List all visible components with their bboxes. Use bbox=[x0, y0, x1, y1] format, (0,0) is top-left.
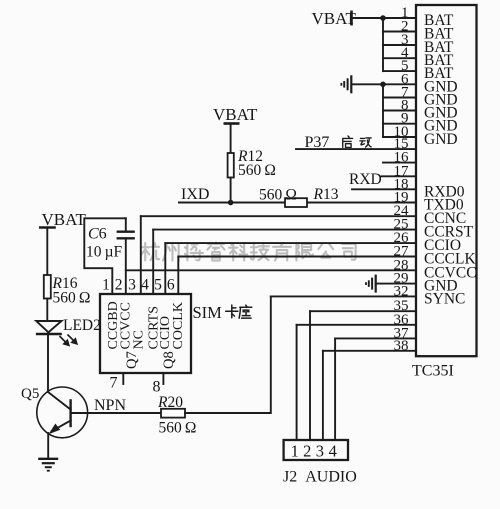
svg-text:3: 3 bbox=[316, 442, 324, 461]
U1 pin 29 (GND) stub and labels bbox=[376, 271, 458, 295]
watermark text 杭州将睿科技有限公司 bbox=[141, 243, 356, 261]
U1 pin 6 (GND) stub and labels bbox=[383, 71, 458, 95]
svg-text:560 Ω: 560 Ω bbox=[259, 187, 297, 204]
power VBAT terminal (LED branch) bbox=[39, 210, 87, 229]
U1 pin 28 (CCVCC) stub and labels bbox=[126, 257, 477, 281]
label SIM card holder bbox=[193, 303, 252, 322]
U1 pin 27 (CCCLK) stub and labels bbox=[178, 244, 476, 268]
svg-text:NPN: NPN bbox=[94, 397, 126, 414]
svg-text:RXD: RXD bbox=[349, 171, 382, 188]
ground symbol (U1 pin 29) bbox=[366, 275, 376, 293]
svg-text:1: 1 bbox=[102, 277, 110, 294]
wire Q5 emitter to ground bbox=[47, 433, 49, 459]
svg-text:4: 4 bbox=[329, 442, 337, 461]
wire SIM pin3 riser to U1 pin24 bbox=[140, 216, 142, 294]
svg-text:SIM: SIM bbox=[193, 303, 223, 322]
ground symbol (pin 6 GND bus) bbox=[341, 75, 383, 93]
wire R12 to TXD line bbox=[230, 178, 232, 203]
wire bus GND pins 6-10 bbox=[382, 84, 384, 137]
U1 pin 35 stub and labels bbox=[310, 298, 416, 314]
SIM pin 8 stub bbox=[153, 373, 164, 396]
junction dot pin6 bus bbox=[380, 82, 386, 88]
svg-text:8: 8 bbox=[153, 379, 161, 396]
svg-text:6: 6 bbox=[167, 277, 175, 294]
wire C6 bottom to SIM pin2 / U1 pin28 riser bbox=[125, 238, 127, 294]
U1 pin 7 (GND) stub and labels bbox=[383, 85, 458, 109]
svg-text:5: 5 bbox=[154, 277, 162, 294]
capacitor C6 bbox=[117, 218, 135, 238]
LED2 emission arrows bbox=[60, 335, 77, 346]
svg-text:C6: C6 bbox=[88, 226, 107, 243]
svg-text:LED2: LED2 bbox=[63, 317, 101, 334]
svg-text:4: 4 bbox=[141, 277, 149, 294]
junction dot pin1 bus bbox=[380, 15, 386, 21]
connector SIM card holder body bbox=[100, 294, 191, 373]
U1 pin 15 stub and labels bbox=[296, 136, 416, 152]
wire R16 to LED2 bbox=[46, 299, 48, 322]
U1 pin 37 stub and labels bbox=[335, 325, 416, 341]
U1 pin 24 (CCNC) stub and labels bbox=[141, 203, 466, 227]
J2 pin numbers 1-4 bbox=[291, 442, 337, 461]
SIM pin 7 stub bbox=[110, 373, 124, 392]
IC U1 TC35I body bbox=[416, 5, 477, 356]
U1 pin 32 (SYNC) stub and labels bbox=[271, 283, 466, 307]
ground symbol below Q5 bbox=[38, 459, 58, 471]
wire J2 pin2 to U1 pin35 bbox=[309, 311, 311, 440]
wire SIM pin5 riser to U1 pin26 bbox=[164, 243, 166, 294]
connector J2 body bbox=[284, 440, 348, 460]
U1 pin 9 (GND) stub and labels bbox=[383, 111, 458, 135]
wire C6 top / SIM pin1 loop bbox=[84, 218, 126, 294]
svg-text:TC35I: TC35I bbox=[412, 362, 454, 379]
SIM pin numbers 1-6 bbox=[102, 277, 175, 294]
svg-text:7: 7 bbox=[110, 375, 118, 392]
svg-text:VBAT: VBAT bbox=[312, 9, 357, 28]
power VBAT terminal (R12 branch) bbox=[213, 105, 258, 124]
svg-text:560 Ω: 560 Ω bbox=[238, 162, 276, 179]
U1 pin 10 (GND) stub and labels bbox=[383, 124, 458, 148]
wire bus BAT pins 1-5 bbox=[382, 18, 384, 71]
U1 pin 16 stub and labels bbox=[383, 150, 416, 166]
wire J2 pin3 to U1 pin38 bbox=[322, 351, 324, 440]
svg-text:GND: GND bbox=[424, 131, 458, 148]
svg-text:SYNC: SYNC bbox=[424, 290, 465, 307]
svg-text:NC: NC bbox=[132, 330, 147, 349]
wire LED2 to Q5 collector bbox=[47, 334, 49, 392]
svg-text:IXD: IXD bbox=[181, 186, 209, 203]
svg-text:VBAT: VBAT bbox=[213, 105, 258, 124]
LED LED2 diode symbol bbox=[36, 321, 62, 334]
wire SIM pin6 riser to U1 pin27 bbox=[177, 257, 179, 295]
resistor R12 body bbox=[228, 153, 234, 178]
wire VBAT to R16 bbox=[46, 228, 48, 277]
U1 pin 19 (TXD0) stub and labels bbox=[179, 190, 464, 214]
resistor R16 body bbox=[44, 275, 51, 299]
resistor R13 body bbox=[285, 198, 307, 207]
U1 pin 4 (BAT) stub and labels bbox=[383, 45, 454, 69]
wire R20 to U1 pin32 bbox=[185, 296, 271, 413]
U1 pin 8 (GND) stub and labels bbox=[383, 98, 458, 122]
net label P37 (start) bbox=[305, 134, 372, 151]
svg-text:38: 38 bbox=[394, 338, 409, 354]
power VBAT terminal (to U1 pin1) bbox=[312, 9, 357, 28]
U1 pin 2 (BAT) stub and labels bbox=[383, 19, 454, 43]
svg-text:10 µF: 10 µF bbox=[86, 244, 123, 261]
wire SIM pin4 riser to U1 pin25 bbox=[152, 230, 154, 294]
U1 pin 3 (BAT) stub and labels bbox=[383, 32, 454, 56]
svg-text:3: 3 bbox=[128, 277, 136, 294]
svg-text:VBAT: VBAT bbox=[42, 210, 87, 229]
svg-text:P37: P37 bbox=[305, 134, 330, 151]
wire J2 pin1 to U1 pin36 bbox=[296, 325, 298, 440]
U1 pin 5 (BAT) stub and labels bbox=[383, 58, 454, 82]
svg-text:J2 AUDIO: J2 AUDIO bbox=[283, 469, 357, 486]
U1 pin 25 (CCRST) stub and labels bbox=[153, 217, 473, 241]
wire VBAT to R12 bbox=[230, 124, 232, 155]
U1 pin 38 stub and labels bbox=[323, 338, 416, 354]
svg-text:COCLK: COCLK bbox=[171, 302, 186, 349]
svg-text:560 Ω: 560 Ω bbox=[159, 420, 197, 437]
transistor Q5 (NPN) bbox=[37, 387, 88, 438]
svg-text:Q7: Q7 bbox=[124, 351, 140, 369]
svg-text:2: 2 bbox=[303, 442, 311, 461]
U1 pin 17 stub and labels bbox=[382, 163, 417, 179]
wire Q5 base to R20 bbox=[71, 412, 162, 414]
svg-text:560 Ω: 560 Ω bbox=[53, 290, 91, 307]
svg-text:1: 1 bbox=[291, 442, 299, 461]
svg-text:Q8: Q8 bbox=[161, 351, 177, 369]
svg-text:Q5: Q5 bbox=[21, 386, 39, 402]
svg-text:R20: R20 bbox=[157, 394, 183, 411]
resistor R20 body bbox=[161, 409, 185, 418]
U1 pin 36 stub and labels bbox=[297, 312, 416, 328]
svg-text:2: 2 bbox=[115, 277, 123, 294]
svg-text:R13: R13 bbox=[313, 186, 339, 203]
junction dot R12 / pin19 wire bbox=[228, 200, 234, 206]
U1 pin 1 (BAT) stub and labels bbox=[352, 5, 454, 29]
wire J2 pin4 to U1 pin37 bbox=[334, 338, 336, 440]
U1 pin 26 (CCIO) stub and labels bbox=[165, 230, 461, 254]
svg-text:32: 32 bbox=[394, 283, 409, 299]
U1 pin 18 (RXD0) stub and labels bbox=[352, 176, 465, 200]
